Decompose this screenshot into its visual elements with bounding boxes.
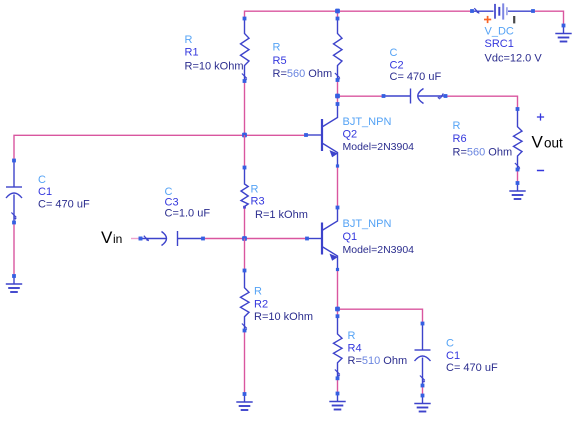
ground under R2 <box>236 392 252 410</box>
wire C3 to Q1 base <box>203 238 307 240</box>
svg-text:R=1 kOhm: R=1 kOhm <box>255 209 308 221</box>
battery plus sign <box>484 19 491 21</box>
svg-text:R3: R3 <box>251 196 265 208</box>
wire collector node to C2 <box>338 95 384 97</box>
resistor R2 <box>241 269 314 333</box>
svg-text:V: V <box>101 228 113 247</box>
svg-text:Q1: Q1 <box>343 231 358 243</box>
svg-text:BJT_NPN: BJT_NPN <box>343 218 392 230</box>
battery current label I <box>513 16 515 23</box>
svg-text:V_DC: V_DC <box>485 26 514 38</box>
svg-text:Q2: Q2 <box>343 129 358 141</box>
svg-text:C1: C1 <box>38 186 52 198</box>
svg-text:BJT_NPN: BJT_NPN <box>343 116 392 128</box>
svg-text:C= 470 uF: C= 470 uF <box>390 71 442 83</box>
svg-text:R=10 kOhm: R=10 kOhm <box>254 311 313 323</box>
svg-text:C=1.0 uF: C=1.0 uF <box>165 208 211 220</box>
node Vout label <box>532 133 564 152</box>
wire C1 out bottom to ground <box>422 386 424 396</box>
svg-text:R: R <box>273 42 281 54</box>
node junction R3/R2/Vin rail <box>242 236 247 241</box>
wire R3 bottom to Vin rail <box>244 207 246 239</box>
svg-text:C: C <box>446 338 454 350</box>
ground under C1 bottom right <box>414 394 430 412</box>
ground under R6 <box>509 181 525 199</box>
svg-text:C= 470 uF: C= 470 uF <box>446 362 498 374</box>
resistor R3 <box>241 166 308 221</box>
wire R4 bottom to ground <box>337 377 339 394</box>
ground under C1 left <box>6 274 22 292</box>
wire R3 top <box>244 135 246 167</box>
transistor Q2 (BJT_NPN) <box>304 102 414 167</box>
capacitor C2 (output coupling) <box>382 47 448 104</box>
svg-text:C= 470 uF: C= 470 uF <box>38 199 90 211</box>
Vout plus sign <box>537 113 544 120</box>
node junction R1/R3/base rail <box>242 133 247 138</box>
capacitor C1 (emitter bypass, bottom right) <box>415 322 498 388</box>
transistor Q1 (BJT_NPN) <box>305 206 414 272</box>
wire Q1 emitter node to R4 and C1 <box>338 270 423 324</box>
svg-text:SRC1: SRC1 <box>485 38 514 50</box>
svg-text:C: C <box>38 174 46 186</box>
Vout minus sign <box>537 170 544 172</box>
resistor R1 <box>185 17 250 83</box>
wire C1 bottom to ground <box>13 223 15 277</box>
svg-text:Vdc=12.0 V: Vdc=12.0 V <box>485 53 543 65</box>
svg-text:R1: R1 <box>185 47 199 59</box>
svg-text:R=560 Ohm: R=560 Ohm <box>273 68 333 80</box>
wire Q2 base rail (C1 to Q2 base) <box>14 135 306 160</box>
wire R2 bottom to ground <box>244 331 246 394</box>
ground under R4 <box>329 392 345 410</box>
node Vcc junction at R5 top <box>335 9 340 14</box>
wire C2 to R6 top <box>446 96 518 109</box>
resistor R5 <box>273 17 343 82</box>
top power rail wire <box>245 11 564 25</box>
svg-text:R: R <box>251 184 259 196</box>
svg-text:C1: C1 <box>446 350 460 362</box>
node Q2 collector junction <box>335 94 340 99</box>
svg-text:C: C <box>390 47 398 59</box>
wire Vin stub <box>131 238 141 240</box>
wire R2 top <box>244 239 246 270</box>
svg-text:R=10 kOhm: R=10 kOhm <box>185 61 244 73</box>
wire Q2 emitter to Q1 collector <box>337 166 339 208</box>
capacitor C3 (input coupling) <box>139 186 211 246</box>
svg-text:R: R <box>453 120 461 132</box>
svg-text:V: V <box>532 133 544 152</box>
svg-text:R2: R2 <box>254 299 268 311</box>
svg-text:out: out <box>544 136 563 151</box>
wire R5 bottom to collector node <box>337 80 339 104</box>
svg-text:R5: R5 <box>273 55 287 67</box>
svg-text:Model=2N3904: Model=2N3904 <box>343 244 415 256</box>
svg-text:in: in <box>113 232 122 246</box>
capacitor C1 (input left) <box>6 159 90 225</box>
svg-text:R: R <box>254 286 262 298</box>
ground at battery <box>555 24 571 42</box>
resistor R6 <box>453 107 523 171</box>
node Vin label and pin <box>101 228 142 247</box>
svg-text:R: R <box>185 34 193 46</box>
node Q1 emitter junction <box>335 307 340 312</box>
wire R1 bottom to base rail <box>244 81 246 135</box>
voltage source SRC1 V_DC battery <box>470 3 542 64</box>
wire R6 bottom to ground <box>517 170 519 183</box>
svg-text:Model=2N3904: Model=2N3904 <box>343 141 415 153</box>
svg-text:R: R <box>348 330 356 342</box>
svg-text:C2: C2 <box>390 60 404 72</box>
svg-text:R=560 Ohm: R=560 Ohm <box>453 147 513 159</box>
svg-text:R4: R4 <box>348 343 362 355</box>
resistor R4 <box>334 314 408 380</box>
svg-text:R=510 Ohm: R=510 Ohm <box>348 355 408 367</box>
svg-text:R6: R6 <box>453 133 467 145</box>
